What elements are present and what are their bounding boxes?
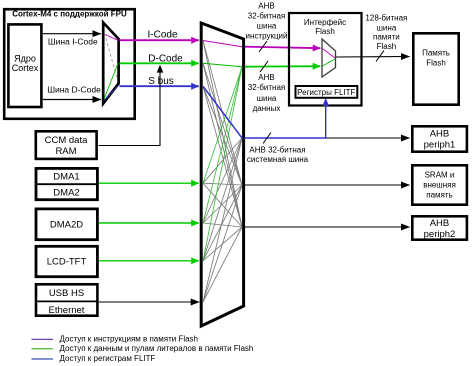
- svg-text:AHB: AHB: [430, 218, 450, 229]
- box DMA1 / DMA2: [36, 168, 97, 199]
- svg-text:USB HS: USB HS: [49, 288, 84, 299]
- svg-text:DMA1: DMA1: [53, 172, 79, 183]
- svg-text:шина: шина: [257, 94, 277, 103]
- legend row 1 instruction access: [32, 338, 54, 340]
- legend row 3 FLITF access: [32, 358, 54, 360]
- legend row 2 data access: [32, 348, 54, 350]
- svg-text:DMA2: DMA2: [53, 187, 79, 198]
- wire slab blue S-bus to system port: [203, 86, 242, 138]
- tick slash on green: [260, 61, 268, 72]
- svg-text:AHB: AHB: [258, 73, 274, 82]
- svg-text:Ядро: Ядро: [14, 54, 36, 64]
- wire mesh gray lines: [203, 41, 242, 303]
- svg-text:RAM: RAM: [55, 146, 76, 157]
- wire bus to SRAM: [244, 184, 410, 186]
- wire Ethernet black arrow: [99, 301, 200, 303]
- wire DMA green arrow: [99, 182, 199, 184]
- svg-text:32-битная: 32-битная: [248, 83, 285, 92]
- svg-text:внешняя: внешняя: [423, 181, 456, 190]
- box AHB periph1: [412, 126, 467, 151]
- wire D-Code bus arrow from core: [43, 99, 101, 101]
- wire DMA divider: [38, 183, 98, 185]
- svg-text:Flash: Flash: [426, 58, 446, 67]
- tick slash on flash memory bus: [376, 51, 384, 62]
- svg-text:Регистры FLITF: Регистры FLITF: [297, 88, 355, 97]
- svg-text:CCM data: CCM data: [45, 135, 88, 146]
- svg-text:память: память: [426, 191, 452, 200]
- svg-text:AHB: AHB: [258, 2, 274, 11]
- svg-text:32-битная: 32-битная: [248, 11, 285, 20]
- svg-text:Интерфейс: Интерфейс: [304, 18, 346, 27]
- svg-text:Cortex: Cortex: [12, 63, 39, 73]
- wire USB divider: [38, 300, 98, 302]
- svg-text:шина: шина: [257, 21, 277, 30]
- bus matrix slab: [201, 23, 243, 326]
- wire slab magenta through: [203, 41, 242, 47]
- tick slash on system bus: [263, 133, 271, 144]
- svg-text:S bus: S bus: [148, 76, 174, 87]
- box U1 Cortex-M4 with FPU: [4, 9, 135, 119]
- wire DMA2D green arrow: [99, 222, 199, 224]
- svg-text:AHB 32-битная: AHB 32-битная: [249, 145, 305, 154]
- wire wedge internal blue: [104, 86, 118, 100]
- box USB HS / Ethernet: [36, 284, 97, 315]
- box core Ядро Cortex: [8, 24, 41, 107]
- wire I-Code magenta bus: [120, 39, 199, 41]
- svg-text:Flash: Flash: [315, 27, 335, 36]
- box Flash interface: [289, 13, 362, 106]
- wire LCD green arrow: [99, 260, 199, 262]
- svg-text:Cortex-M4 с поддержкой FPU: Cortex-M4 с поддержкой FPU: [12, 10, 127, 19]
- svg-text:шина: шина: [377, 23, 397, 32]
- svg-text:инструкций: инструкций: [246, 32, 288, 41]
- wire flash wedge internal green: [323, 59, 336, 66]
- wire magenta instruction bus to flash interface: [245, 47, 320, 49]
- mux wedge flash interface: [322, 39, 336, 77]
- svg-text:SRAM и: SRAM и: [425, 171, 455, 180]
- svg-text:AHB: AHB: [430, 129, 450, 140]
- arrowhead blue up: [322, 98, 329, 106]
- wire wedge internal dashed gray: [105, 33, 118, 80]
- wire green data bus to flash interface: [245, 65, 320, 68]
- wire I-Code bus arrow from core: [43, 33, 101, 35]
- wire 128-bit flash memory bus: [336, 56, 410, 59]
- svg-text:памяти: памяти: [373, 32, 400, 41]
- mux wedge CPU bus selector: [103, 23, 118, 104]
- svg-text:Шина D-Code: Шина D-Code: [47, 85, 101, 95]
- wire D-Code green bus: [120, 62, 199, 64]
- box AHB periph2: [412, 216, 467, 239]
- svg-text:Доступ к данным и пулам литера: Доступ к данным и пулам литералов в памя…: [60, 344, 254, 353]
- wire flash wedge internal magenta: [323, 49, 336, 59]
- wire wedge internal magenta: [104, 34, 118, 40]
- tick slash on magenta: [259, 41, 267, 52]
- wire bus to AHB periph2: [244, 226, 410, 228]
- svg-text:128-битная: 128-битная: [365, 14, 407, 23]
- svg-text:Flash: Flash: [377, 42, 397, 51]
- box Память Flash: [413, 33, 458, 104]
- box SRAM and external memory: [412, 165, 467, 204]
- svg-text:I-Code: I-Code: [147, 30, 177, 41]
- svg-text:DMA2D: DMA2D: [50, 219, 83, 230]
- wire blue FLITF register access: [325, 102, 327, 138]
- box LCD-TFT: [36, 246, 97, 276]
- svg-text:Шина I-Code: Шина I-Code: [48, 37, 98, 47]
- box CCM data RAM: [36, 131, 97, 159]
- svg-text:D-Code: D-Code: [148, 54, 183, 65]
- arrowhead CCM up: [157, 65, 164, 73]
- wire system bus to AHB periph1: [326, 137, 409, 139]
- svg-text:Память: Память: [422, 49, 450, 58]
- box Регистры FLITF: [296, 86, 358, 98]
- wire wedge internal green: [104, 63, 118, 98]
- svg-text:LCD-TFT: LCD-TFT: [47, 257, 87, 268]
- wire CCM to D-Code bus: [99, 69, 161, 146]
- svg-text:Доступ к регистрам FLITF: Доступ к регистрам FLITF: [60, 354, 156, 363]
- wire mesh green lines to flash data port: [203, 67, 242, 261]
- svg-text:системная шина: системная шина: [247, 155, 309, 164]
- wire S bus blue: [120, 85, 199, 87]
- wire slab green through: [203, 63, 242, 67]
- wire blue system bus segment: [244, 137, 326, 139]
- svg-text:Доступ к инструкциям в памяти: Доступ к инструкциям в памяти Flash: [60, 334, 199, 343]
- svg-text:данных: данных: [253, 104, 281, 113]
- svg-text:periph1: periph1: [424, 140, 456, 151]
- svg-text:periph2: periph2: [424, 229, 456, 240]
- box DMA2D: [36, 209, 97, 240]
- svg-text:Ethernet: Ethernet: [49, 305, 85, 316]
